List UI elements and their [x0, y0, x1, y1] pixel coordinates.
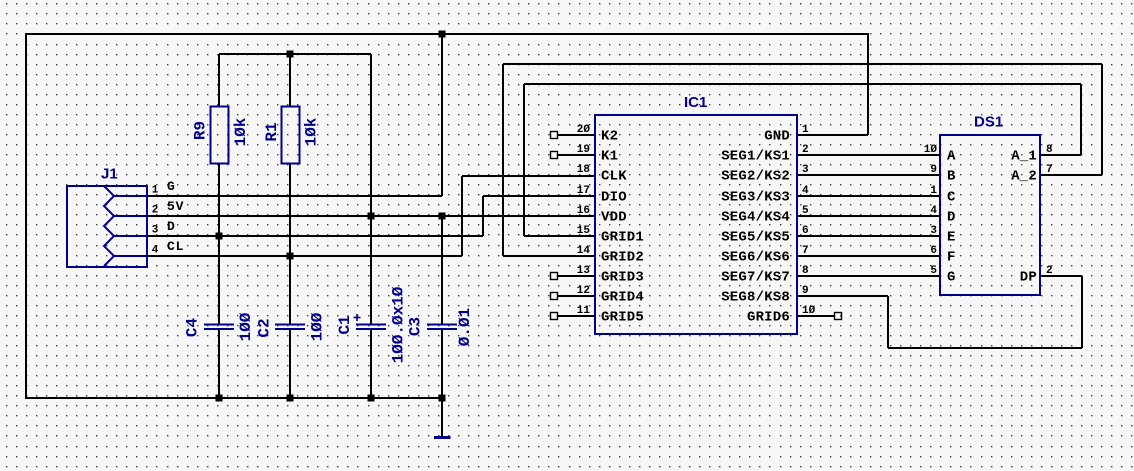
svg-text:SEG2/KS2: SEG2/KS2 — [721, 169, 790, 185]
svg-text:7: 7 — [1046, 164, 1053, 176]
svg-text:19: 19 — [577, 144, 590, 156]
svg-text:7: 7 — [802, 245, 809, 257]
svg-text:DP: DP — [1020, 270, 1037, 286]
wire SEG3/KS3 to C — [797, 195, 940, 197]
capacitor C2 — [275, 325, 305, 330]
svg-text:C2: C2 — [255, 318, 273, 337]
wire 5V resistor-top — [219, 53, 371, 55]
GRID4 open-pin square — [551, 293, 558, 300]
svg-text:DIO: DIO — [601, 190, 627, 206]
label C2 — [255, 318, 273, 337]
label C1 — [336, 315, 354, 334]
wire SEG6/KS6 to F — [797, 255, 940, 257]
IC1 pin 15 number — [577, 225, 591, 237]
junction rail C4 — [216, 395, 223, 402]
DS1 pin 8 number — [1046, 144, 1053, 156]
IC1 pin 17 number — [577, 185, 590, 197]
IC1 pin name GRID6 — [747, 310, 790, 326]
C1 plus sign — [354, 314, 361, 321]
connector J1 zigzag — [104, 186, 114, 266]
label DS1 — [974, 114, 1003, 131]
DS1 pin name G — [947, 270, 956, 286]
svg-text:K2: K2 — [601, 129, 618, 145]
svg-text:3: 3 — [802, 164, 809, 176]
DS1 pin name A_2 — [1011, 169, 1037, 185]
net label G — [167, 179, 176, 194]
wire DP jog down — [1081, 276, 1083, 348]
wire A_2 pin — [1040, 174, 1102, 176]
junction rail C3 — [439, 395, 446, 402]
capacitor C3 — [427, 325, 457, 330]
svg-text:B: B — [947, 169, 956, 185]
IC1 pin name K2 — [601, 129, 618, 145]
svg-text:13: 13 — [577, 265, 591, 277]
net label CL — [167, 239, 184, 254]
svg-text:SEG8/KS8: SEG8/KS8 — [721, 290, 790, 306]
IC1 pin name SEG2/KS2 — [721, 169, 790, 185]
wire GRID3 stub — [558, 275, 594, 277]
svg-text:9: 9 — [930, 164, 937, 176]
DS1 pin 1Ø number — [924, 144, 938, 156]
J1 pin 2 number — [152, 205, 159, 217]
svg-text:C: C — [947, 190, 956, 206]
wire C2 bottom to rail — [289, 329, 291, 398]
wire SEG8 jog down — [887, 296, 889, 348]
DS1 pin 4 number — [930, 205, 937, 217]
wire GND right drop — [867, 34, 869, 135]
junction CLK R1 — [287, 253, 294, 260]
label R9 — [191, 121, 209, 140]
wire SEG7/KS7 to G — [797, 275, 940, 277]
svg-text:SEG5/KS5: SEG5/KS5 — [721, 230, 790, 246]
svg-text:CL: CL — [167, 239, 184, 254]
IC1 pin name VDD — [601, 210, 627, 226]
wire SEG1/KS1 to A — [797, 154, 940, 156]
J1 pin 2 lead — [114, 215, 148, 217]
svg-text:16: 16 — [577, 205, 590, 217]
IC1 pin 14 number — [577, 245, 591, 257]
wire A_1 pin — [1040, 154, 1081, 156]
junction 5V C1 — [368, 213, 375, 220]
svg-text:1Ø: 1Ø — [802, 305, 816, 317]
IC1 pin 19 number — [577, 144, 590, 156]
wire R1 bottom to C2 — [289, 164, 291, 324]
GRID6 open-pin square — [835, 313, 842, 320]
wire GRID1 run — [524, 235, 595, 237]
DS1 pin name D — [947, 210, 956, 226]
IC IC1 body — [595, 115, 797, 334]
svg-text:CLK: CLK — [601, 169, 627, 185]
DS1 pin name C — [947, 190, 956, 206]
J1 pin 4 lead — [114, 255, 148, 257]
IC1 pin 3 number — [802, 164, 809, 176]
svg-text:11: 11 — [577, 305, 591, 317]
svg-text:SEG1/KS1: SEG1/KS1 — [721, 149, 790, 165]
wire C3 bottom to ground — [441, 329, 443, 436]
junction rail C1 — [368, 395, 375, 402]
wire C4 bottom to rail — [218, 329, 220, 398]
wire D jog up — [482, 196, 484, 236]
svg-text:5: 5 — [930, 265, 937, 277]
svg-text:18: 18 — [577, 164, 591, 176]
IC1 pin name SEG6/KS6 — [721, 250, 790, 266]
svg-text:Ø.Ø1: Ø.Ø1 — [456, 308, 474, 346]
IC1 pin name GRID5 — [601, 310, 644, 326]
IC1 pin 18 number — [577, 164, 591, 176]
svg-text:R9: R9 — [191, 121, 209, 140]
svg-text:1Øk: 1Øk — [232, 117, 250, 146]
svg-text:SEG3/KS3: SEG3/KS3 — [721, 190, 790, 206]
wire C1 bottom to rail — [370, 329, 372, 398]
junction rail C2 — [287, 395, 294, 402]
ground symbol — [434, 436, 451, 439]
svg-text:GRID3: GRID3 — [601, 270, 644, 286]
wire CLK run — [462, 175, 595, 177]
wire SEG5/KS5 to E — [797, 235, 940, 237]
svg-text:12: 12 — [577, 285, 590, 297]
wire GRID1 jog up — [523, 84, 525, 236]
GRID5 open-pin square — [551, 313, 558, 320]
svg-text:2Ø: 2Ø — [577, 124, 591, 136]
IC1 pin name GRID4 — [601, 290, 644, 306]
svg-text:G: G — [167, 179, 176, 194]
IC1 pin 1 number — [802, 124, 809, 136]
wire R9 bottom to C4 — [218, 164, 220, 324]
svg-text:GRID5: GRID5 — [601, 310, 644, 326]
value C4 100 — [237, 312, 255, 341]
IC1 pin name CLK — [601, 169, 627, 185]
value R9 10k — [232, 117, 250, 146]
svg-text:R1: R1 — [263, 122, 281, 141]
svg-text:SEG7/KS7: SEG7/KS7 — [721, 270, 790, 286]
wire GRID6 stub — [797, 315, 835, 317]
IC1 pin 7 number — [802, 245, 809, 257]
wire K2 stub — [558, 134, 594, 136]
svg-text:A_2: A_2 — [1011, 169, 1037, 185]
IC1 pin 9 number — [802, 285, 809, 297]
IC1 pin 2 number — [802, 144, 809, 156]
IC1 pin 13 number — [577, 265, 591, 277]
svg-text:14: 14 — [577, 245, 591, 257]
wire A_2 jog — [1101, 64, 1103, 175]
IC1 pin name SEG8/KS8 — [721, 290, 790, 306]
IC1 pin 2Ø number — [577, 124, 591, 136]
label C3 — [406, 317, 424, 336]
wire GRID5 stub — [558, 315, 594, 317]
DS1 pin 9 number — [930, 164, 937, 176]
IC1 pin name GRID1 — [601, 230, 644, 246]
svg-text:J1: J1 — [101, 166, 118, 183]
svg-text:6: 6 — [930, 245, 937, 257]
svg-text:GRID6: GRID6 — [747, 310, 790, 326]
wire GND pin1 IC1 — [797, 134, 868, 136]
svg-text:D: D — [167, 219, 176, 234]
wire G from J1 — [148, 195, 442, 197]
svg-text:C4: C4 — [183, 318, 201, 338]
net label 5V — [167, 199, 184, 214]
IC1 pin 6 number — [802, 225, 809, 237]
IC1 pin name SEG1/KS1 — [721, 149, 790, 165]
wire A_1 jog — [1080, 84, 1082, 155]
svg-text:15: 15 — [577, 225, 591, 237]
wire 5V to R1 top — [289, 54, 291, 106]
svg-text:8: 8 — [802, 265, 809, 277]
svg-text:2: 2 — [152, 205, 159, 217]
svg-text:D: D — [947, 210, 956, 226]
IC1 pin 5 number — [802, 205, 809, 217]
svg-text:1ØØ.Øx1Ø: 1ØØ.Øx1Ø — [389, 286, 407, 363]
svg-text:1: 1 — [152, 185, 159, 197]
K2 open-pin square — [551, 132, 558, 139]
IC1 pin name GRID2 — [601, 250, 644, 266]
svg-text:3: 3 — [152, 225, 159, 237]
junction 5V C3 — [439, 213, 446, 220]
value C2 100 — [308, 312, 326, 341]
display DS1 body — [940, 135, 1040, 295]
IC1 pin name GRID3 — [601, 270, 644, 286]
svg-text:1ØØ: 1ØØ — [237, 312, 255, 341]
svg-text:E: E — [947, 230, 956, 246]
svg-text:1Ø: 1Ø — [924, 144, 938, 156]
IC1 pin name SEG4/KS4 — [721, 210, 790, 226]
svg-text:3: 3 — [930, 225, 937, 237]
DS1 pin name A — [947, 149, 956, 165]
svg-text:GND: GND — [764, 129, 790, 145]
svg-text:5V: 5V — [167, 199, 184, 214]
svg-text:GRID4: GRID4 — [601, 290, 644, 306]
label C4 — [183, 318, 201, 338]
J1 pin 1 lead — [114, 195, 148, 197]
svg-text:C3: C3 — [406, 317, 424, 336]
wire CL from J1 — [148, 255, 462, 257]
resistor R1 — [282, 107, 300, 164]
svg-text:4: 4 — [152, 245, 159, 257]
svg-text:GRID1: GRID1 — [601, 230, 644, 246]
svg-text:F: F — [947, 250, 956, 266]
junction 5V R1 top — [287, 51, 294, 58]
wire 5V from J1 to VDD — [148, 215, 595, 217]
wire GND top — [25, 33, 869, 35]
IC1 pin name SEG5/KS5 — [721, 230, 790, 246]
wire SEG8/KS8 pin9 — [797, 295, 888, 297]
IC1 pin name DIO — [601, 190, 627, 206]
wire 5V to R9 top — [218, 54, 220, 106]
svg-text:5: 5 — [802, 205, 809, 217]
DS1 pin 1 number — [930, 185, 937, 197]
wire CL jog up — [461, 176, 463, 256]
IC1 pin 1Ø number — [802, 305, 816, 317]
svg-text:9: 9 — [802, 285, 809, 297]
DS1 pin name A_1 — [1011, 149, 1037, 165]
wire D from J1 — [148, 235, 483, 237]
svg-text:DS1: DS1 — [974, 114, 1003, 131]
J1 pin 3 number — [152, 225, 159, 237]
svg-text:K1: K1 — [601, 149, 618, 165]
IC1 pin 4 number — [802, 185, 809, 197]
label IC1 — [684, 94, 707, 111]
junction GND top — [439, 31, 446, 38]
J1 pin 4 number — [152, 245, 159, 257]
DS1 pin name DP — [1020, 270, 1037, 286]
IC1 pin name SEG3/KS3 — [721, 190, 790, 206]
wire GND left edge — [25, 34, 27, 398]
svg-text:1Øk: 1Øk — [302, 117, 320, 146]
IC1 pin 8 number — [802, 265, 809, 277]
label J1 — [101, 166, 118, 183]
svg-text:1: 1 — [802, 124, 809, 136]
svg-text:17: 17 — [577, 185, 590, 197]
value R1 10k — [302, 117, 320, 146]
svg-text:SEG4/KS4: SEG4/KS4 — [721, 210, 790, 226]
K1 open-pin square — [551, 152, 558, 159]
svg-text:2: 2 — [802, 144, 809, 156]
svg-text:1ØØ: 1ØØ — [308, 312, 326, 341]
wire DIO run — [483, 195, 595, 197]
junction DIO R9 — [216, 233, 223, 240]
IC1 pin 16 number — [577, 205, 590, 217]
svg-text:G: G — [947, 270, 956, 286]
J1 pin 1 number — [152, 185, 159, 197]
svg-text:4: 4 — [802, 185, 809, 197]
IC1 pin name GND — [764, 129, 790, 145]
DS1 pin name F — [947, 250, 956, 266]
IC1 pin 12 number — [577, 285, 590, 297]
wire GRID4 stub — [558, 295, 594, 297]
capacitor C1 polarized — [356, 325, 386, 330]
svg-text:4: 4 — [930, 205, 937, 217]
svg-text:A_1: A_1 — [1011, 149, 1037, 165]
capacitor C4 — [204, 325, 234, 330]
svg-text:8: 8 — [1046, 144, 1053, 156]
wire 5V down to C1 — [370, 54, 372, 324]
DS1 pin name E — [947, 230, 956, 246]
wire GRID1 to A_1 top run — [524, 83, 1081, 85]
wire K1 stub — [558, 154, 594, 156]
GRID3 open-pin square — [551, 273, 558, 280]
IC1 pin 11 number — [577, 305, 591, 317]
svg-text:2: 2 — [1046, 265, 1053, 277]
wire SEG8 bottom run — [888, 347, 1082, 349]
wire SEG2/KS2 to B — [797, 174, 940, 176]
DS1 pin 2 number — [1046, 265, 1053, 277]
wire GRID2 to A_2 top run — [503, 63, 1102, 65]
label R1 — [263, 122, 281, 141]
J1 pin 3 lead — [114, 235, 148, 237]
DS1 pin 5 number — [930, 265, 937, 277]
svg-text:6: 6 — [802, 225, 809, 237]
wire SEG4/KS4 to D — [797, 215, 940, 217]
DS1 pin 3 number — [930, 225, 937, 237]
value C3 0.01 — [456, 308, 474, 346]
wire GRID2 jog up — [502, 64, 504, 256]
IC1 pin name SEG7/KS7 — [721, 270, 790, 286]
value C1 100.0x10 — [389, 286, 407, 363]
IC1 pin name K1 — [601, 149, 618, 165]
DS1 pin name B — [947, 169, 956, 185]
svg-text:GRID2: GRID2 — [601, 250, 644, 266]
wire GRID2 run — [503, 255, 595, 257]
wire DP pin — [1040, 275, 1082, 277]
wire GND bottom rail — [25, 397, 444, 399]
resistor R9 — [211, 107, 229, 164]
svg-text:VDD: VDD — [601, 210, 627, 226]
wire GND drop to G — [441, 34, 443, 196]
svg-text:SEG6/KS6: SEG6/KS6 — [721, 250, 790, 266]
svg-text:C1: C1 — [336, 315, 354, 334]
connector J1 body — [67, 186, 147, 267]
DS1 pin 7 number — [1046, 164, 1053, 176]
svg-text:A: A — [947, 149, 956, 165]
wire 5V to C3 top — [441, 216, 443, 324]
svg-text:1: 1 — [930, 185, 937, 197]
DS1 pin 6 number — [930, 245, 937, 257]
net label D — [167, 219, 176, 234]
svg-text:IC1: IC1 — [684, 94, 707, 111]
